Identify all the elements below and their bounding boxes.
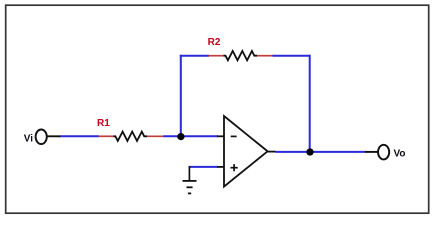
resistor R2 left pin (red) — [209, 55, 224, 57]
op-amp U1 plus symbol — [231, 164, 238, 171]
wire Vi to R1 (blue) — [61, 135, 100, 137]
pin stub Vi (black) — [47, 135, 61, 137]
terminal Vi — [36, 130, 47, 145]
wire node B to Vo (blue) — [310, 151, 365, 153]
pin stub Vo (black) — [365, 151, 378, 153]
svg-text:R2: R2 — [208, 37, 221, 48]
wire op-amp output to node B (blue) — [275, 151, 310, 153]
op-amp U1 output pin stub (black) — [268, 151, 276, 153]
wire node A up to feedback loop (blue) — [180, 55, 182, 137]
op-amp U1 non-inverting pin stub (black) — [217, 166, 224, 168]
op-amp U1 triangle — [224, 116, 268, 187]
wire feedback right vertical down to output node (blue) — [309, 55, 311, 152]
op-amp U1 minus symbol — [231, 135, 237, 137]
wire R1 to node A (blue) — [163, 135, 181, 137]
resistor R1 zigzag body — [113, 132, 147, 141]
node B junction dot — [306, 148, 313, 155]
wire node A to op-amp inverting input (blue) — [181, 135, 218, 137]
resistor R2 right pin (red) — [257, 55, 273, 57]
wire ground to op-amp non-inverting input (blue) — [189, 166, 218, 168]
terminal Vo — [378, 145, 389, 160]
ground symbol — [183, 166, 197, 193]
wire R2 to feedback top-right (blue) — [273, 55, 311, 57]
node A junction dot — [177, 133, 184, 140]
svg-text:Vi: Vi — [24, 134, 33, 145]
resistor R1 right pin (red) — [147, 135, 164, 137]
resistor R2 zigzag body — [224, 51, 258, 60]
svg-text:Vo: Vo — [394, 148, 406, 159]
resistor R1 left pin (red) — [99, 135, 114, 137]
wire feedback top-left to R2 (blue) — [180, 55, 209, 57]
op-amp U1 inverting pin stub (black) — [217, 135, 224, 137]
svg-text:R1: R1 — [97, 118, 110, 129]
